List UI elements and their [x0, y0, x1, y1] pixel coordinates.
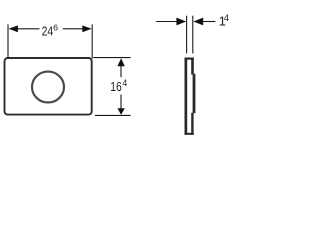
extension line bottom (height dim) [95, 114, 131, 116]
side profile outline [185, 58, 195, 135]
left thick edge [185, 58, 188, 135]
dimension line 1.4 left segment [156, 21, 177, 23]
right edge bump [193, 74, 196, 113]
dimension line 24.6 right segment [63, 28, 84, 30]
arrow right-pointing (thickness dim) [176, 18, 186, 26]
side view right face line [192, 16, 194, 54]
plate front view outline [5, 58, 92, 115]
dimension line 16.4 upper segment [120, 65, 122, 77]
arrow up (height dim) [117, 58, 124, 66]
svg-text:24: 24 [42, 24, 54, 39]
arrow left-pointing (thickness dim) [193, 18, 203, 26]
bottom bar [185, 133, 194, 135]
right edge lower [191, 113, 193, 135]
svg-text:4: 4 [122, 78, 127, 88]
dimension line 16.4 lower segment [120, 95, 122, 109]
arrow right (width dim) [82, 25, 91, 32]
svg-text:16: 16 [110, 79, 122, 94]
extension line left (width dim) [7, 24, 9, 58]
svg-text:6: 6 [53, 22, 58, 32]
extension line top (height dim) [93, 57, 130, 59]
arrow left (width dim) [9, 25, 18, 32]
dimension line 1.4 right segment [203, 21, 215, 23]
arrow down (height dim) [117, 108, 124, 115]
extension line right (width dim) [91, 24, 93, 58]
svg-text:4: 4 [224, 13, 229, 23]
right edge upper [191, 58, 194, 75]
top bar [185, 57, 194, 59]
dimension line 24.6 left segment [17, 28, 40, 30]
side view left face line [186, 16, 188, 54]
button ring [32, 72, 64, 103]
